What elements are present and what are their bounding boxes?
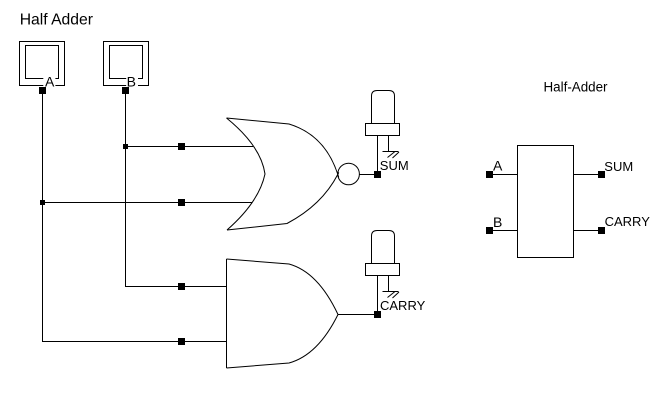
- wire A to AND bottom input: [42, 341, 227, 343]
- svg-text:A: A: [493, 158, 503, 174]
- node block input A: [486, 171, 493, 178]
- svg-text:Half-Adder: Half-Adder: [544, 80, 609, 95]
- input pin A (switch): [20, 42, 65, 88]
- ground symbol at D2: [383, 292, 400, 299]
- svg-text:A: A: [45, 74, 55, 90]
- svg-text:SUM: SUM: [380, 158, 409, 173]
- svg-text:CARRY: CARRY: [605, 214, 651, 229]
- ground symbol at D1: [383, 152, 400, 159]
- LED D2 (CARRY) dome: [372, 231, 395, 264]
- pin terminal AND bottom input: [178, 338, 185, 345]
- node A (pin A terminal): [39, 87, 46, 94]
- LED D2 right leg: [388, 276, 390, 292]
- wire A vertical: [42, 90, 44, 342]
- stub input A of block: [491, 174, 517, 176]
- pin terminal XOR top input: [178, 143, 185, 150]
- gate U1 output bubble: [338, 163, 360, 185]
- input pin B (switch): [104, 42, 149, 88]
- LED D1 base: [366, 124, 400, 136]
- wire A to XOR bottom input: [42, 202, 252, 204]
- svg-text:SUM: SUM: [604, 159, 633, 174]
- gate U2 AND body: [227, 259, 339, 368]
- LED D1 (SUM) dome: [372, 91, 395, 124]
- svg-text:CARRY: CARRY: [380, 298, 426, 313]
- wire XNOR output to SUM node: [359, 174, 375, 176]
- pin terminal XOR bottom input: [178, 199, 185, 206]
- LED D1 right leg: [388, 136, 390, 152]
- node block output CARRY: [598, 227, 605, 234]
- node B (pin B terminal): [122, 87, 129, 94]
- LED D2 left leg: [377, 276, 379, 312]
- junction at A wire: [40, 200, 45, 205]
- wire B vertical: [125, 90, 127, 287]
- junction at B wire: [123, 144, 128, 149]
- node SUM output: [374, 171, 381, 178]
- LED D1 left leg: [377, 136, 379, 172]
- node CARRY output: [374, 311, 381, 318]
- node block output SUM: [598, 171, 605, 178]
- pin terminal AND top input: [178, 283, 185, 290]
- gate U1 XNOR body: [227, 118, 339, 230]
- wire B to XOR top input: [125, 146, 253, 148]
- stub input B of block: [491, 230, 517, 232]
- svg-text:B: B: [493, 214, 502, 230]
- wire AND output to CARRY node: [338, 314, 375, 316]
- node block input B: [486, 227, 493, 234]
- svg-text:Half Adder: Half Adder: [20, 12, 93, 29]
- stub output CARRY of block: [574, 230, 599, 232]
- stub output SUM of block: [574, 174, 599, 176]
- LED D2 base: [366, 264, 400, 276]
- block U3 Half-Adder box: [518, 146, 574, 258]
- wire B to AND top input: [125, 286, 227, 288]
